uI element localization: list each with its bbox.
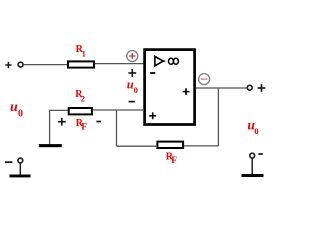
ground bar (bottom-left) bbox=[10, 175, 31, 178]
op-amp infinity symbol bbox=[169, 58, 179, 64]
wire: R1 to op-amp inverting input bbox=[95, 63, 144, 65]
label RF (feedback resistor) bbox=[166, 151, 177, 166]
wire: R2 to op-amp noninverting input bbox=[93, 109, 144, 111]
svg-text:0: 0 bbox=[18, 108, 23, 119]
op-amp output plus (inside box) bbox=[183, 88, 190, 95]
svg-text:1: 1 bbox=[82, 49, 86, 59]
label RF (voltage across R2) bbox=[76, 118, 87, 133]
output terminal circle (bottom-right) bbox=[250, 153, 255, 158]
polarity plus above u0 (middle) bbox=[128, 69, 136, 77]
wire: ground stub to R2 bbox=[50, 109, 68, 111]
polarity plus left of R2 bbox=[58, 118, 66, 126]
resistor R1 bbox=[68, 61, 94, 67]
polarity plus right of output terminal bbox=[258, 84, 266, 92]
op-amp gain triangle symbol bbox=[155, 56, 166, 65]
wire: top-left terminal to R1 bbox=[23, 64, 67, 66]
ground bar (under R2) bbox=[39, 144, 62, 147]
terminal minus sign (bottom-left) bbox=[5, 161, 12, 163]
label R2 bbox=[75, 89, 85, 104]
label u0 (left input) bbox=[10, 100, 23, 120]
svg-text:0: 0 bbox=[254, 126, 258, 136]
label R1 bbox=[76, 44, 86, 59]
op-amp inverting input minus (inside box) bbox=[150, 72, 155, 74]
resistor RF (feedback) bbox=[157, 142, 183, 148]
svg-text:0: 0 bbox=[134, 85, 138, 95]
resistor R2 bbox=[69, 108, 92, 114]
label u0 (right output) bbox=[247, 117, 258, 135]
node circled plus bbox=[127, 51, 138, 62]
wire: RF to feedback drop bbox=[184, 145, 218, 147]
wire: noninverting junction to RF bbox=[117, 145, 158, 147]
wire: bottom-right terminal to ground bbox=[251, 158, 253, 174]
polarity minus right of R2 bbox=[96, 121, 101, 123]
output terminal circle (right) bbox=[247, 85, 252, 90]
svg-text:F: F bbox=[171, 156, 177, 166]
op-amp U1 box bbox=[145, 50, 195, 125]
wire: vertical from R2 left to ground bbox=[49, 110, 51, 145]
ground bar (bottom-right) bbox=[242, 174, 264, 177]
label u0 (middle) bbox=[127, 77, 138, 95]
node circled minus bbox=[199, 74, 210, 85]
svg-text:F: F bbox=[81, 123, 87, 133]
wire: bottom-left terminal to ground bbox=[19, 163, 21, 175]
terminal minus sign (bottom-right) bbox=[258, 153, 262, 155]
polarity minus below u0 (middle) bbox=[129, 101, 135, 103]
input terminal circle (bottom-left) bbox=[18, 158, 23, 163]
wire: op-amp output to output terminal bbox=[196, 87, 247, 89]
terminal plus sign (top-left input) bbox=[5, 62, 11, 68]
input terminal circle (top-left) bbox=[18, 62, 23, 67]
op-amp noninverting input plus (inside box) bbox=[149, 112, 156, 119]
wire: feedback vertical drop from output bbox=[217, 88, 219, 146]
wire: vertical from noninverting junction bbox=[116, 110, 118, 146]
svg-text:u: u bbox=[10, 100, 18, 115]
svg-text:2: 2 bbox=[81, 93, 85, 103]
